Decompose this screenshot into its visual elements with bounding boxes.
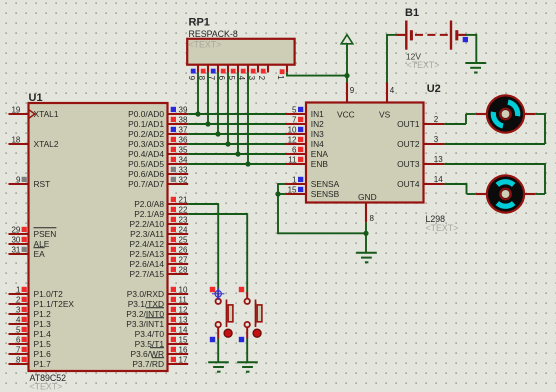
svg-text:5: 5 <box>16 325 21 334</box>
svg-text:ENA: ENA <box>311 149 329 159</box>
U1 pin 37 P0.2/AD2 <box>128 125 188 139</box>
svg-text:<TEXT>: <TEXT> <box>30 382 63 392</box>
svg-text:18: 18 <box>11 135 20 144</box>
U1 pin 21 P2.0/A8 <box>134 195 188 209</box>
RP1 pin 7 <box>207 65 218 81</box>
svg-text:RP1: RP1 <box>189 16 210 28</box>
svg-text:P1.5: P1.5 <box>34 339 52 349</box>
svg-text:35: 35 <box>179 145 188 154</box>
svg-text:P1.6: P1.6 <box>34 349 52 359</box>
svg-text:14: 14 <box>179 325 188 334</box>
svg-text:9: 9 <box>350 86 355 95</box>
U2 pin 10 IN3 <box>286 125 324 139</box>
svg-text:6: 6 <box>292 145 297 154</box>
svg-text:19: 19 <box>11 105 20 114</box>
U1 pin 35 P0.4/AD4 <box>128 145 188 159</box>
svg-text:22: 22 <box>179 205 188 214</box>
svg-text:9: 9 <box>187 76 196 81</box>
U1 pin 32 P0.7/AD7 <box>128 175 188 189</box>
motor M1 (top) <box>476 95 535 132</box>
svg-text:U1: U1 <box>29 92 43 104</box>
svg-text:P1.0/T2: P1.0/T2 <box>34 289 64 299</box>
svg-text:P1.2: P1.2 <box>34 309 52 319</box>
U1 pin 11 P3.1/TXD <box>128 295 189 309</box>
U2 pin 8 GND <box>358 192 377 223</box>
svg-text:3: 3 <box>434 135 439 144</box>
svg-text:8: 8 <box>16 355 21 364</box>
U1 pin 33 P0.6/AD6 <box>128 165 188 179</box>
wire motor1 right to OUT2 <box>444 113 545 144</box>
svg-text:OUT2: OUT2 <box>397 139 420 149</box>
wire RP1 pin to P0 row y=124 <box>205 73 210 127</box>
svg-text:4: 4 <box>16 315 21 324</box>
ground symbol (button1) <box>208 362 229 372</box>
svg-text:<TEXT>: <TEXT> <box>407 60 440 70</box>
U1 pin 1 P1.0/T2 <box>9 285 64 299</box>
svg-text:P0.3/AD3: P0.3/AD3 <box>128 139 164 149</box>
svg-text:ENB: ENB <box>311 159 329 169</box>
svg-text:P3.0/RXD: P3.0/RXD <box>127 289 164 299</box>
RP1 pin 2 <box>257 65 268 81</box>
svg-text:33: 33 <box>179 165 188 174</box>
svg-text:P0.5/AD5: P0.5/AD5 <box>128 159 164 169</box>
ground symbol (button2) <box>237 362 258 372</box>
svg-text:25: 25 <box>179 235 188 244</box>
svg-text:13: 13 <box>434 155 443 164</box>
wire RP1 pin1 to VCC node <box>286 72 347 75</box>
svg-text:GND: GND <box>358 192 377 202</box>
svg-text:P2.0/A8: P2.0/A8 <box>134 199 164 209</box>
svg-text:P1.4: P1.4 <box>34 329 52 339</box>
U1 pin 22 P2.1/A9 <box>134 205 188 219</box>
svg-text:P3.7/RD: P3.7/RD <box>132 359 164 369</box>
U2 pin 12 IN4 <box>286 135 324 149</box>
svg-text:27: 27 <box>179 255 188 264</box>
svg-text:EA: EA <box>34 249 46 259</box>
wire SENSA to SENSB <box>278 183 286 194</box>
U2 pin 7 IN2 <box>286 115 324 129</box>
U2 pin 2 OUT1 <box>397 115 444 129</box>
svg-text:PSEN: PSEN <box>34 229 57 239</box>
svg-text:1: 1 <box>276 75 285 80</box>
U2 pin 4 VS <box>379 83 395 120</box>
U1 pin 36 P0.3/AD3 <box>128 135 188 149</box>
U1 pin 38 P0.1/AD1 <box>128 115 188 129</box>
RP1 pin 4 <box>237 65 248 81</box>
ground symbol (battery) <box>465 63 486 73</box>
svg-text:14: 14 <box>434 175 443 184</box>
svg-text:1: 1 <box>16 285 21 294</box>
svg-text:P1.3: P1.3 <box>34 319 52 329</box>
svg-text:34: 34 <box>179 155 188 164</box>
svg-text:1: 1 <box>292 175 297 184</box>
svg-text:12: 12 <box>288 135 297 144</box>
svg-text:P0.7/AD7: P0.7/AD7 <box>128 179 164 189</box>
U1 pin 39 P0.0/AD0 <box>128 105 188 119</box>
push button (P2.0) <box>210 287 233 362</box>
svg-text:16: 16 <box>179 345 188 354</box>
svg-text:P2.3/A11: P2.3/A11 <box>130 229 164 239</box>
svg-text:5: 5 <box>292 105 297 114</box>
svg-text:2: 2 <box>257 76 266 81</box>
svg-text:11: 11 <box>288 155 297 164</box>
U1 pin 23 P2.2/A10 <box>130 215 189 229</box>
U2 pin 1 SENSA <box>286 175 340 189</box>
svg-text:38: 38 <box>179 115 188 124</box>
wire RP1 pin to P0 row y=114 <box>195 73 200 117</box>
svg-text:P1.7: P1.7 <box>34 359 52 369</box>
svg-text:P2.4/A12: P2.4/A12 <box>130 239 165 249</box>
svg-text:IN2: IN2 <box>311 119 324 129</box>
wire P2.1 to button2 <box>188 213 247 292</box>
svg-text:24: 24 <box>179 225 188 234</box>
svg-text:SENSB: SENSB <box>311 189 340 199</box>
U2 pin 5 IN1 <box>286 105 324 119</box>
svg-text:P2.6/A14: P2.6/A14 <box>130 259 165 269</box>
U1 pin 6 P1.5 <box>9 335 52 349</box>
junction SENSB node <box>275 191 286 233</box>
svg-text:13: 13 <box>179 315 188 324</box>
svg-text:XTAL1: XTAL1 <box>34 109 59 119</box>
U1 pin 5 P1.4 <box>9 325 52 339</box>
U1 pin 17 P3.7/RD <box>132 355 188 369</box>
svg-text:7: 7 <box>16 345 21 354</box>
U1 pin 16 P3.6/WR <box>130 345 188 359</box>
U1 pin 31 EA <box>9 245 46 259</box>
power symbol VCC arrow <box>341 35 353 76</box>
svg-text:15: 15 <box>179 335 188 344</box>
RP1 pin 3 <box>247 65 258 81</box>
U1 pin 24 P2.3/A11 <box>130 225 188 239</box>
U2 pin 11 ENB <box>286 155 328 169</box>
svg-text:23: 23 <box>179 215 188 224</box>
svg-text:OUT3: OUT3 <box>397 159 420 169</box>
svg-text:P2.5/A13: P2.5/A13 <box>130 249 165 259</box>
svg-text:37: 37 <box>179 125 188 134</box>
svg-text:3: 3 <box>16 305 21 314</box>
svg-text:IN3: IN3 <box>311 129 324 139</box>
U1 pin 30 ALE <box>9 235 50 249</box>
svg-text:7: 7 <box>292 115 297 124</box>
wire P0.2-IN3 <box>188 133 286 135</box>
svg-text:26: 26 <box>179 245 188 254</box>
svg-text:P2.1/A9: P2.1/A9 <box>134 209 164 219</box>
U1 pin 2 P1.1/T2EX <box>9 295 75 309</box>
svg-text:<TEXT>: <TEXT> <box>426 223 459 233</box>
svg-text:2: 2 <box>434 115 439 124</box>
svg-text:RST: RST <box>34 179 51 189</box>
U1 pin 15 P3.5/T1 <box>135 335 189 349</box>
driver U2 L298 body <box>306 83 458 233</box>
svg-text:31: 31 <box>11 245 20 254</box>
svg-text:P1.1/T2EX: P1.1/T2EX <box>34 299 75 309</box>
U2 pin 14 OUT4 <box>397 175 444 189</box>
U1 pin 8 P1.7 <box>9 355 52 369</box>
wire battery- to ground <box>466 34 476 63</box>
svg-text:SENSA: SENSA <box>311 179 340 189</box>
svg-text:IN1: IN1 <box>311 109 324 119</box>
svg-text:P0.0/AD0: P0.0/AD0 <box>128 109 164 119</box>
ground symbol (U2) <box>356 253 377 262</box>
junction GND node <box>363 222 368 253</box>
U1 pin 14 P3.4/T0 <box>135 325 189 339</box>
svg-text:39: 39 <box>179 105 188 114</box>
svg-text:15: 15 <box>288 185 297 194</box>
U2 pin 13 OUT3 <box>397 155 444 169</box>
U1 pin 29 PSEN <box>9 225 57 239</box>
wire battery+ to VS pin <box>387 34 397 83</box>
wire SENS to GND node <box>277 232 366 234</box>
svg-text:IN4: IN4 <box>311 139 324 149</box>
U1 pin 19 XTAL1 <box>9 105 59 119</box>
svg-text:VCC: VCC <box>337 110 355 120</box>
wire OUT4 to motor2 left <box>444 183 475 194</box>
U2 pin 6 ENA <box>286 145 328 159</box>
svg-text:OUT4: OUT4 <box>397 179 420 189</box>
wire OUT3 to motor2 right <box>444 163 545 194</box>
U1 pin 3 P1.2 <box>9 305 52 319</box>
svg-text:30: 30 <box>11 235 20 244</box>
svg-text:32: 32 <box>179 175 188 184</box>
svg-text:9: 9 <box>16 175 21 184</box>
U1 pin 4 P1.3 <box>9 315 52 329</box>
svg-text:10: 10 <box>288 125 297 134</box>
wire RP1 pin to P0 row y=134 <box>215 73 220 137</box>
svg-text:P0.2/AD2: P0.2/AD2 <box>128 129 164 139</box>
svg-text:P2.7/A15: P2.7/A15 <box>130 269 165 279</box>
U2 pin 3 OUT2 <box>397 135 444 149</box>
junction VCC node <box>344 73 349 83</box>
svg-text:28: 28 <box>179 265 188 274</box>
svg-text:36: 36 <box>179 135 188 144</box>
wire RP1 pin to P0 row y=164 <box>245 73 250 167</box>
wire OUT1 to motor1 left <box>444 114 475 124</box>
svg-text:2: 2 <box>16 295 21 304</box>
wire P0.3-IN4 <box>188 143 286 145</box>
U1 pin 9 RST <box>9 175 51 189</box>
svg-text:<TEXT>: <TEXT> <box>189 40 222 50</box>
battery B1 12V <box>396 7 468 70</box>
svg-text:11: 11 <box>179 295 188 304</box>
U1 pin 26 P2.5/A13 <box>130 245 189 259</box>
U2 pin 15 SENSB <box>286 185 340 199</box>
RP1 pin 8 <box>197 65 208 81</box>
wire RP1 pin to P0 row y=154 <box>235 73 240 157</box>
wire P0.1-IN2 <box>188 123 286 125</box>
wire P0.4-ENA <box>188 153 286 155</box>
svg-text:VS: VS <box>379 110 391 120</box>
wire RP1 pin to P0 row y=144 <box>225 73 230 147</box>
svg-text:P2.2/A10: P2.2/A10 <box>130 219 165 229</box>
svg-text:P0.6/AD6: P0.6/AD6 <box>128 169 164 179</box>
wire P0.5-ENB <box>188 163 286 165</box>
U1 pin 25 P2.4/A12 <box>130 235 189 249</box>
U1 pin 12 P3.2/INT0 <box>126 305 188 319</box>
svg-text:U2: U2 <box>427 83 441 95</box>
RP1 pin 6 <box>217 65 228 81</box>
U1 pin 7 P1.6 <box>9 345 52 359</box>
microcontroller U1 AT89C52 body <box>29 92 168 392</box>
motor M2 (bottom) <box>476 175 535 212</box>
U2 pin 9 VCC <box>337 83 355 120</box>
svg-text:P0.1/AD1: P0.1/AD1 <box>128 119 164 129</box>
svg-text:OUT1: OUT1 <box>397 119 420 129</box>
svg-text:8: 8 <box>370 214 375 223</box>
svg-text:10: 10 <box>179 285 188 294</box>
RP1 pin 1 (common) <box>276 65 287 80</box>
svg-text:P3.3/INT1: P3.3/INT1 <box>126 319 164 329</box>
RP1 pin 9 <box>187 65 198 81</box>
svg-text:29: 29 <box>11 225 20 234</box>
svg-text:XTAL2: XTAL2 <box>34 139 59 149</box>
U1 pin 10 P3.0/RXD <box>127 285 188 299</box>
RP1 pin 5 <box>227 65 238 81</box>
svg-text:P3.4/T0: P3.4/T0 <box>135 329 165 339</box>
svg-text:21: 21 <box>179 195 188 204</box>
wire P0.0-IN1 <box>188 113 286 115</box>
U1 pin 27 P2.6/A14 <box>130 255 189 269</box>
U1 pin 18 XTAL2 <box>9 135 59 149</box>
svg-text:P0.4/AD4: P0.4/AD4 <box>128 149 164 159</box>
svg-text:6: 6 <box>16 335 21 344</box>
U1 pin 28 P2.7/A15 <box>130 265 189 279</box>
svg-text:12: 12 <box>179 305 188 314</box>
resistor pack RP1 RESPACK-8 body <box>187 16 294 64</box>
U1 pin 13 P3.3/INT1 <box>126 315 188 329</box>
U1 pin 34 P0.5/AD5 <box>128 155 188 169</box>
svg-text:RESPACK-8: RESPACK-8 <box>189 29 238 39</box>
svg-text:4: 4 <box>390 86 395 95</box>
svg-text:17: 17 <box>179 355 188 364</box>
svg-text:B1: B1 <box>405 7 419 19</box>
wire P2.0 to button1 <box>188 203 218 292</box>
push button (P2.1) <box>239 287 262 362</box>
